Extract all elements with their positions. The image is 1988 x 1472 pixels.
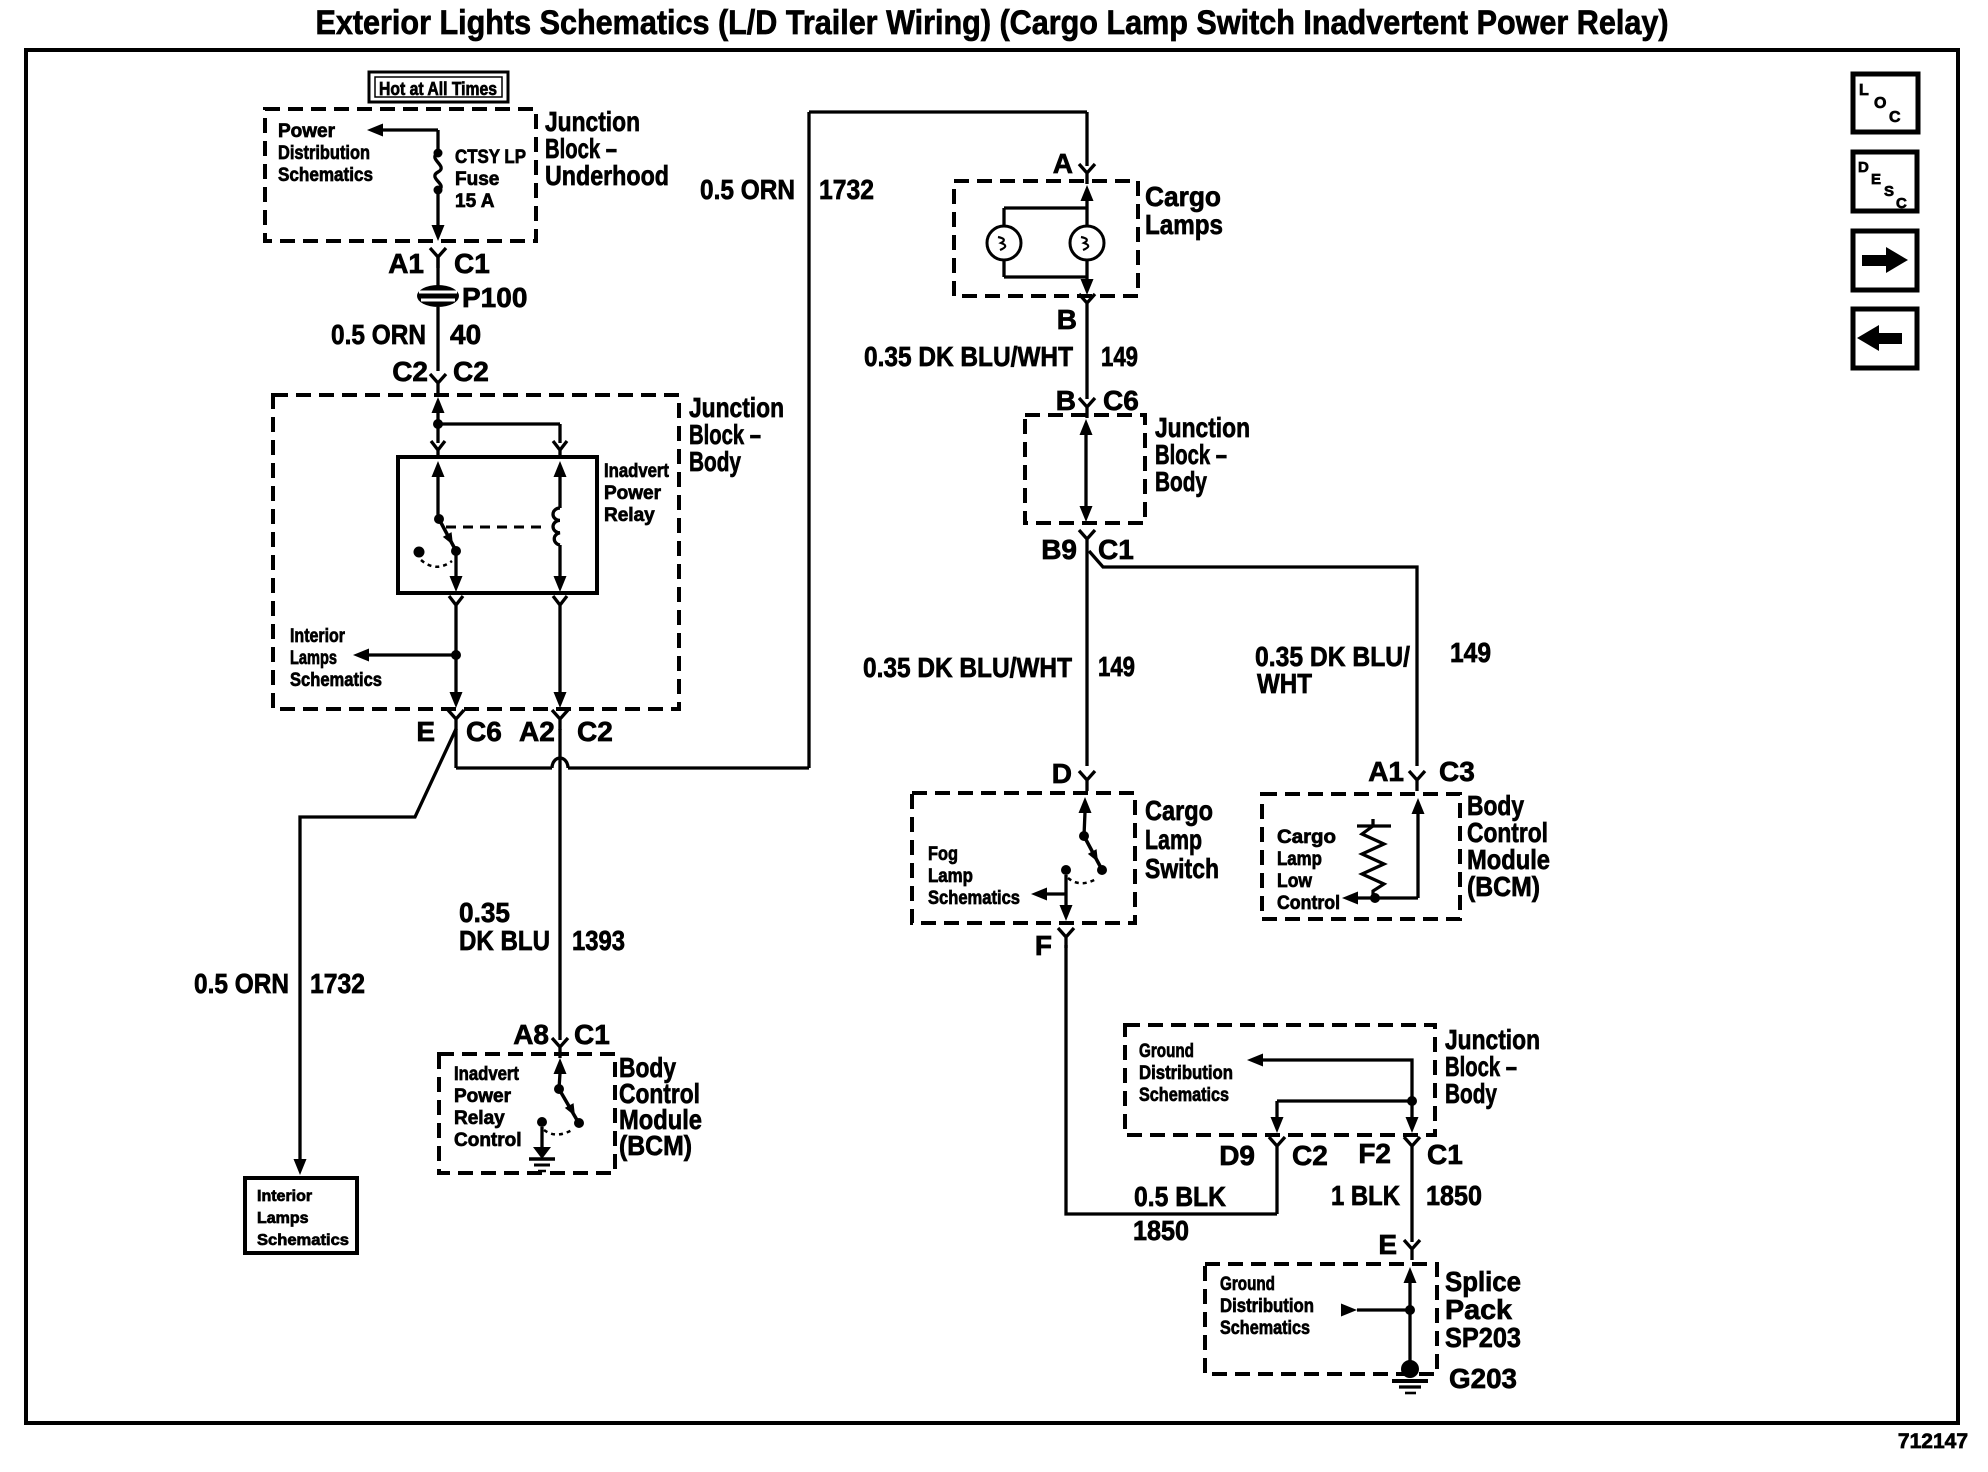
svg-text:C2: C2 [1292, 1140, 1328, 1171]
svg-text:Schematics: Schematics [290, 670, 382, 691]
svg-text:Ground: Ground [1220, 1274, 1275, 1295]
svg-text:O: O [1874, 95, 1886, 112]
svg-text:C2: C2 [577, 716, 613, 747]
svg-text:B: B [1056, 385, 1076, 416]
svg-text:F2: F2 [1358, 1138, 1391, 1169]
svg-text:Cargo: Cargo [1145, 181, 1221, 212]
svg-text:Fuse: Fuse [455, 169, 499, 190]
svg-text:0.5 ORN: 0.5 ORN [194, 968, 289, 999]
svg-text:Control: Control [454, 1130, 522, 1151]
svg-text:A1: A1 [1368, 756, 1404, 787]
svg-text:E: E [1378, 1229, 1397, 1260]
svg-text:Body: Body [689, 446, 741, 477]
svg-text:Pack: Pack [1445, 1294, 1512, 1325]
svg-text:Lamps: Lamps [290, 648, 337, 669]
svg-text:A8: A8 [513, 1019, 549, 1050]
svg-text:B9: B9 [1041, 534, 1077, 565]
svg-text:1732: 1732 [310, 968, 365, 999]
svg-text:(BCM): (BCM) [619, 1130, 692, 1161]
svg-text:A2: A2 [519, 716, 555, 747]
svg-text:WHT: WHT [1257, 668, 1312, 699]
svg-text:149: 149 [1450, 637, 1491, 668]
svg-text:Hot at All Times: Hot at All Times [379, 79, 497, 99]
svg-text:40: 40 [450, 319, 481, 350]
svg-text:Interior: Interior [290, 626, 346, 647]
svg-text:Power: Power [454, 1086, 512, 1107]
svg-text:D9: D9 [1219, 1140, 1255, 1171]
svg-text:Underhood: Underhood [545, 160, 669, 191]
svg-text:Switch: Switch [1145, 853, 1219, 884]
svg-text:C3: C3 [1439, 756, 1475, 787]
svg-text:Relay: Relay [604, 505, 655, 526]
svg-text:0.35 DK BLU/WHT: 0.35 DK BLU/WHT [863, 652, 1072, 683]
svg-text:Schematics: Schematics [1220, 1318, 1310, 1339]
svg-text:Low: Low [1277, 871, 1312, 892]
svg-text:C2: C2 [392, 356, 428, 387]
svg-text:712147: 712147 [1898, 1430, 1968, 1453]
svg-text:P100: P100 [462, 282, 527, 313]
svg-text:A1: A1 [388, 248, 424, 279]
svg-text:Interior: Interior [257, 1188, 312, 1205]
svg-text:0.35: 0.35 [459, 897, 510, 928]
svg-text:E: E [1871, 171, 1881, 188]
svg-text:Distribution: Distribution [278, 143, 370, 164]
svg-text:C1: C1 [454, 248, 490, 279]
svg-text:E: E [416, 716, 435, 747]
svg-text:Power: Power [278, 121, 336, 142]
svg-text:Lamp: Lamp [1145, 824, 1202, 855]
svg-text:CTSY LP: CTSY LP [455, 147, 526, 168]
svg-text:Cargo: Cargo [1277, 827, 1336, 848]
svg-text:0.35 DK BLU/WHT: 0.35 DK BLU/WHT [864, 341, 1073, 372]
svg-text:C6: C6 [466, 716, 502, 747]
svg-text:SP203: SP203 [1445, 1322, 1521, 1353]
svg-text:C1: C1 [1427, 1139, 1463, 1170]
svg-text:C: C [1896, 195, 1907, 212]
svg-text:C1: C1 [574, 1019, 610, 1050]
svg-text:B: B [1057, 304, 1077, 335]
svg-text:1850: 1850 [1426, 1180, 1482, 1211]
svg-text:Relay: Relay [454, 1108, 505, 1129]
svg-text:Lamps: Lamps [257, 1210, 309, 1227]
svg-text:Distribution: Distribution [1220, 1296, 1314, 1317]
svg-text:0.5 ORN: 0.5 ORN [331, 319, 426, 350]
svg-text:Ground: Ground [1139, 1041, 1194, 1062]
svg-text:1732: 1732 [819, 174, 874, 205]
svg-text:C2: C2 [453, 356, 489, 387]
svg-text:L: L [1859, 82, 1869, 99]
svg-text:0.5 ORN: 0.5 ORN [700, 174, 795, 205]
svg-text:Schematics: Schematics [928, 888, 1020, 909]
svg-text:Exterior Lights Schematics (L/: Exterior Lights Schematics (L/D Trailer … [316, 4, 1669, 42]
svg-text:Power: Power [604, 483, 662, 504]
svg-text:C6: C6 [1103, 385, 1139, 416]
svg-text:G203: G203 [1449, 1363, 1517, 1394]
svg-text:D: D [1052, 758, 1072, 789]
svg-text:Body: Body [1155, 466, 1207, 497]
svg-text:Control: Control [1277, 893, 1340, 914]
svg-text:Body: Body [1445, 1078, 1497, 1109]
svg-text:Lamps: Lamps [1145, 209, 1223, 240]
svg-text:Fog: Fog [928, 844, 958, 865]
svg-text:149: 149 [1098, 651, 1135, 682]
svg-text:Schematics: Schematics [278, 165, 373, 186]
svg-text:C: C [1889, 109, 1901, 126]
svg-text:15 A: 15 A [455, 191, 495, 212]
svg-text:A: A [1053, 148, 1073, 179]
svg-text:Schematics: Schematics [1139, 1085, 1229, 1106]
svg-text:Lamp: Lamp [928, 866, 973, 887]
svg-text:Lamp: Lamp [1277, 849, 1322, 870]
svg-text:C1: C1 [1098, 534, 1134, 565]
svg-text:1393: 1393 [572, 925, 625, 956]
svg-text:(BCM): (BCM) [1467, 871, 1540, 902]
svg-text:Inadvert: Inadvert [604, 461, 670, 482]
svg-text:149: 149 [1101, 341, 1138, 372]
svg-text:Cargo: Cargo [1145, 795, 1213, 826]
svg-text:Inadvert: Inadvert [454, 1064, 520, 1085]
svg-text:1850: 1850 [1133, 1215, 1189, 1246]
svg-text:Schematics: Schematics [257, 1232, 349, 1249]
svg-text:D: D [1858, 159, 1869, 176]
svg-text:1 BLK: 1 BLK [1331, 1180, 1400, 1211]
svg-text:0.5 BLK: 0.5 BLK [1134, 1181, 1226, 1212]
svg-text:DK BLU: DK BLU [459, 925, 550, 956]
svg-text:Splice: Splice [1445, 1266, 1521, 1297]
svg-text:S: S [1884, 183, 1894, 200]
svg-text:F: F [1035, 930, 1052, 961]
svg-text:Distribution: Distribution [1139, 1063, 1233, 1084]
